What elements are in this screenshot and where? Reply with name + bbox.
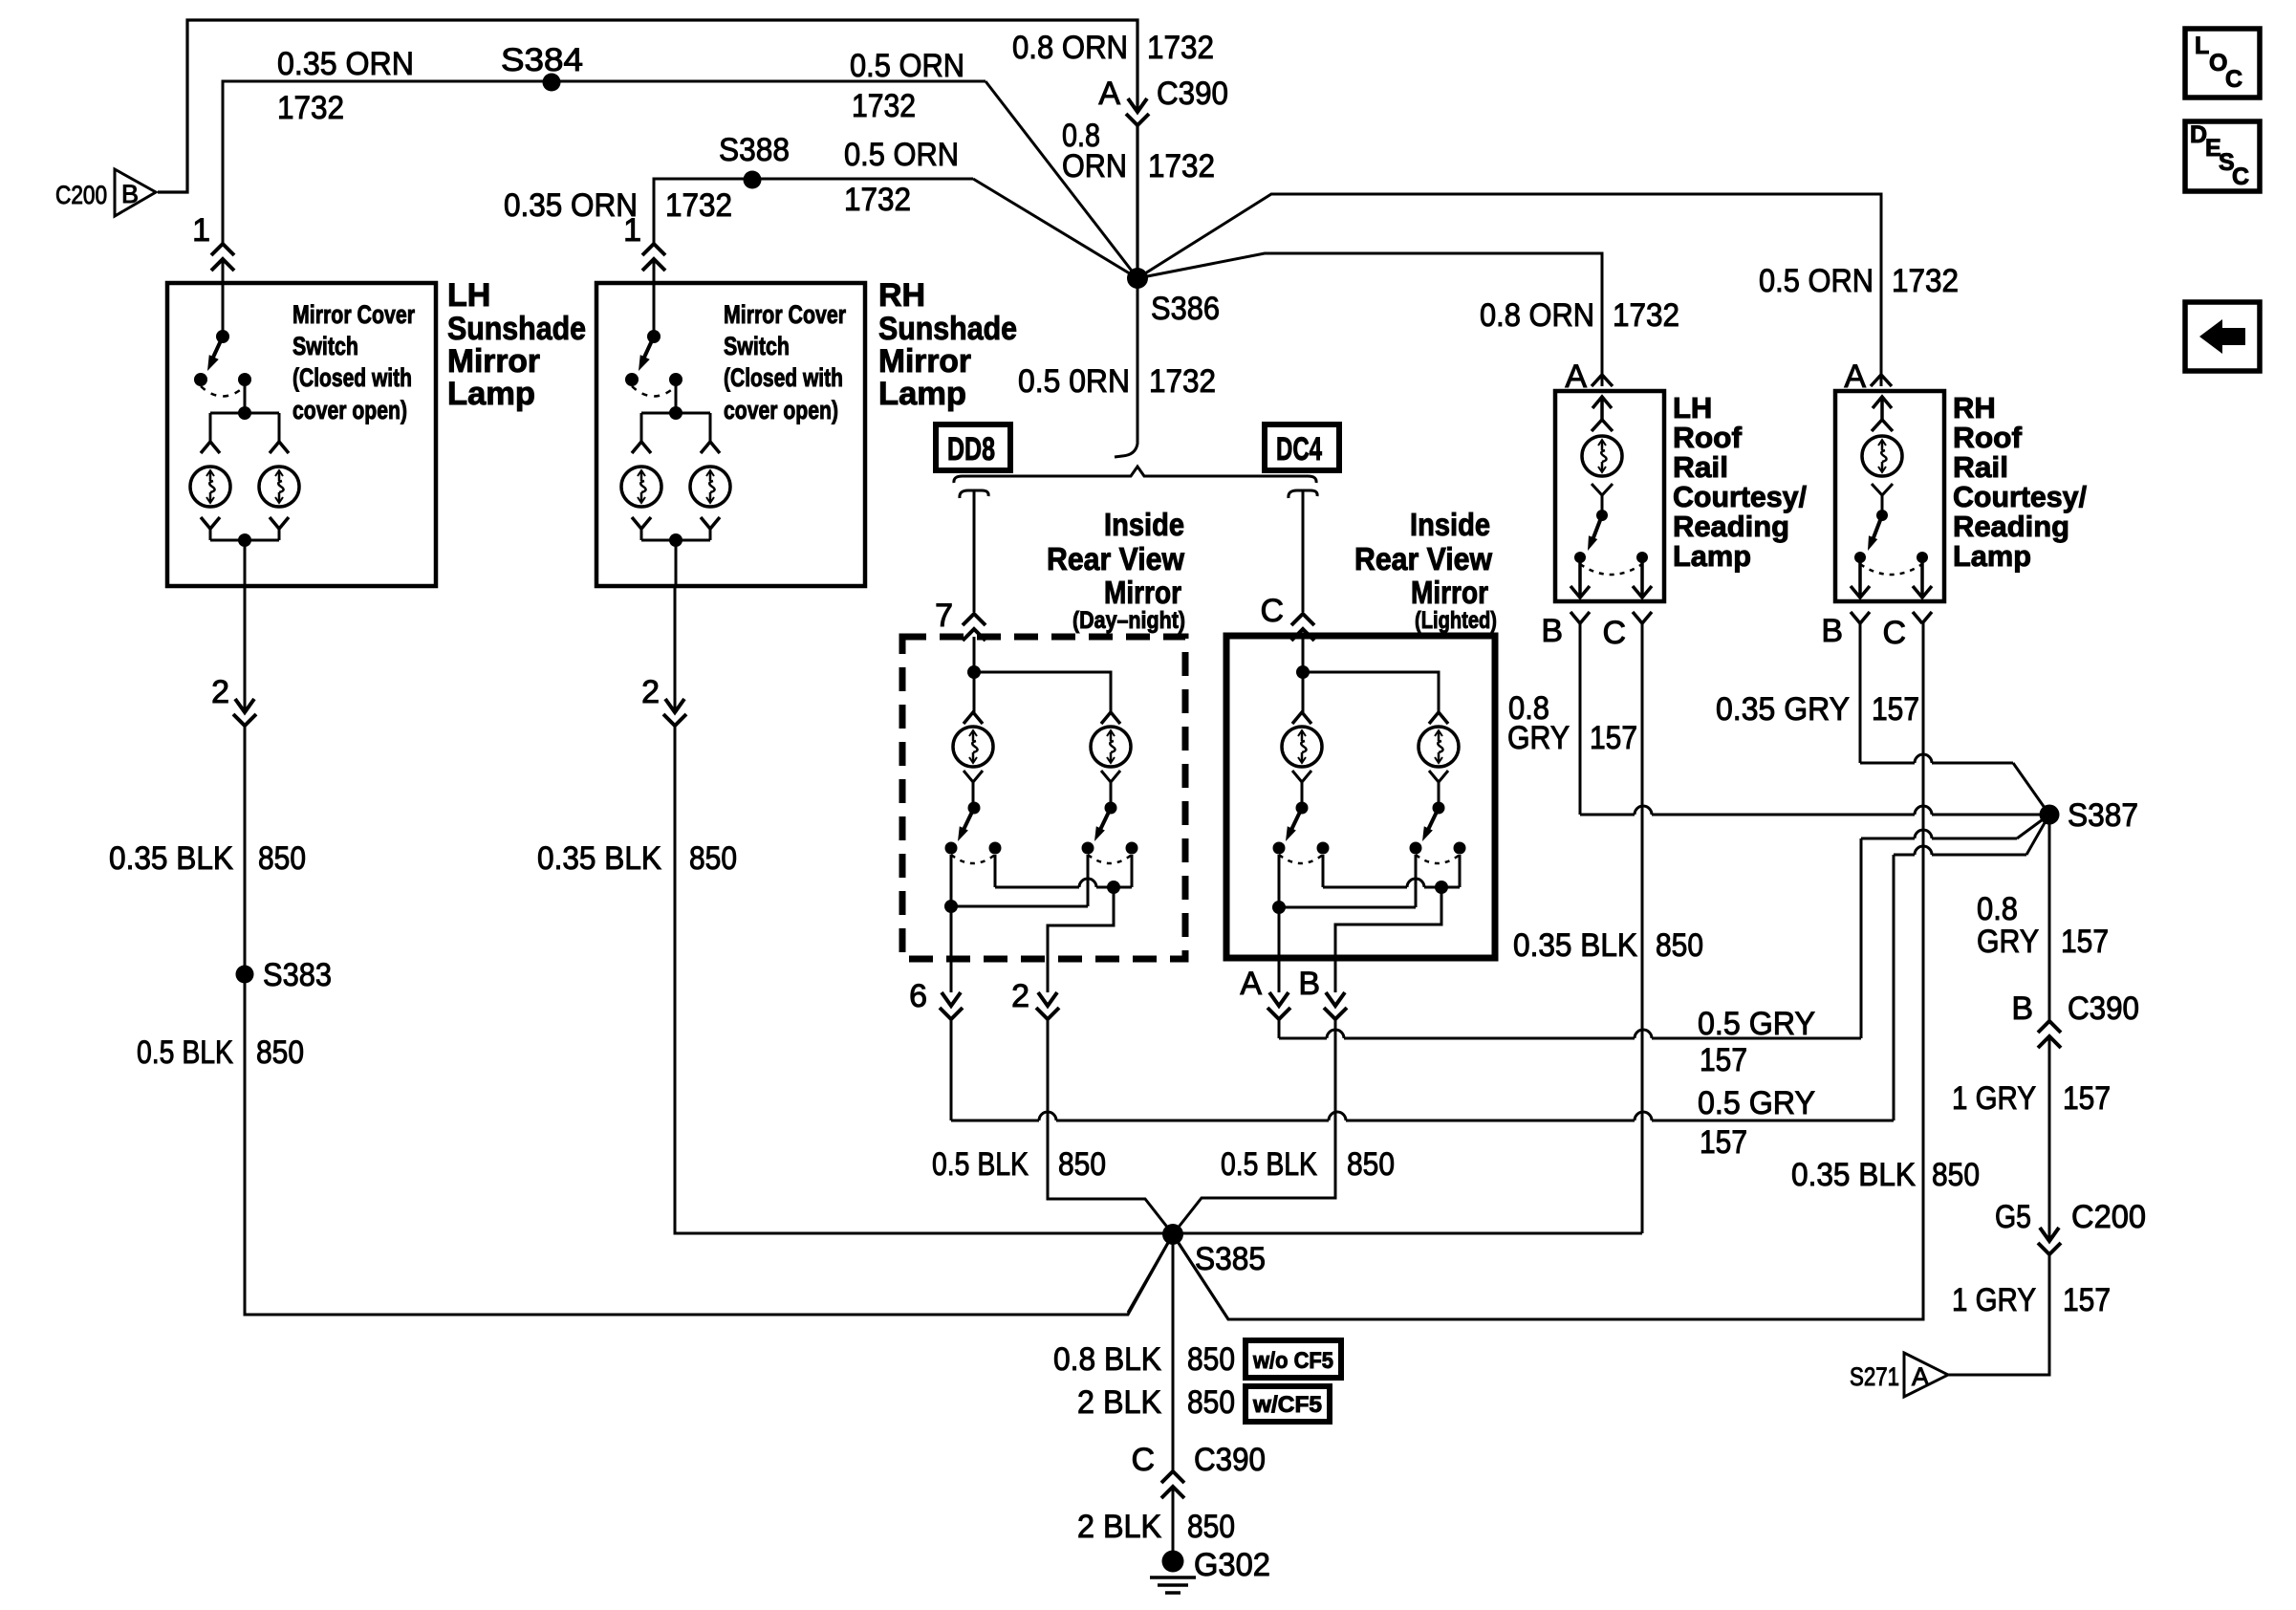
svg-text:850: 850 [256,1034,304,1071]
terminal pin A [1592,375,1613,386]
svg-text:0.35 GRY: 0.35 GRY [1716,691,1850,728]
svg-text:RH: RH [878,277,925,314]
inline connector pin 1 LH [221,245,226,258]
connector C200 B triangle [115,169,156,216]
svg-text:B: B [121,180,139,208]
svg-text:1: 1 [623,212,641,249]
splice S385 [1162,1224,1183,1245]
wire to pin B [1335,887,1441,992]
legend box back-arrow [2185,302,2260,371]
junction [1107,881,1120,894]
box Inside Rear View Mirror Day-night [902,637,1185,959]
svg-text:Rail: Rail [1953,450,2008,484]
wire right contacts join day-night [995,879,1132,887]
svg-text:C: C [2232,163,2249,190]
svg-text:1732: 1732 [1892,263,1959,299]
switch right lighted mirror [1410,802,1466,864]
option box w/CF5 [1245,1386,1330,1422]
svg-text:1732: 1732 [277,90,344,126]
option split brace DD8/DC4 [954,467,1316,483]
svg-text:0.35 BLK: 0.35 BLK [537,840,661,877]
svg-text:0.35 ORN: 0.35 ORN [504,187,638,224]
svg-text:S383: S383 [263,957,332,993]
svg-text:B: B [2011,990,2033,1027]
svg-text:Reading: Reading [1953,510,2069,543]
wire pinC branch to both lamps [1303,636,1439,712]
wire pin A to 0.5 GRY run [1278,1019,1281,1038]
svg-text:Rear View: Rear View [1354,541,1492,577]
wire pin7 branch to both lamps [974,637,1111,712]
wire RH roof pin B 0.35 GRY 157 [1859,623,1862,763]
inline connector C390 pin B [2047,1022,2052,1035]
wire right contacts join lighted [1323,879,1460,887]
svg-text:Mirror: Mirror [447,343,540,380]
svg-text:1: 1 [192,212,210,249]
wire option split to pin 7 [960,490,988,612]
svg-text:C390: C390 [1157,76,1228,112]
junction [1296,665,1310,679]
svg-text:GRY: GRY [1507,720,1570,756]
svg-text:LH: LH [447,277,490,314]
svg-text:C: C [1882,615,1906,651]
box RH Sunshade Mirror Lamp [596,283,865,586]
svg-text:0.35 ORN: 0.35 ORN [277,46,414,82]
svg-text:Roof: Roof [1673,421,1743,454]
svg-text:157: 157 [1872,691,1919,728]
switch right day-night mirror [1082,802,1138,864]
svg-text:0.5 BLK: 0.5 BLK [137,1034,233,1071]
wire LH roof pin B 0.8 GRY 157 [1579,623,1582,815]
svg-text:157: 157 [2063,1080,2111,1117]
wire diagonal into S387 [2017,815,2049,838]
inline connector pin A [1277,1007,1282,1018]
svg-text:Sunshade: Sunshade [447,311,586,347]
wire diagonal S385 to RH roof pin C run [1173,1234,1923,1319]
svg-text:L: L [2195,33,2209,59]
svg-text:157: 157 [1700,1124,1747,1161]
wire 0.35 ORN 1732 from S384 branch down into LH switch [223,81,986,337]
svg-text:S384: S384 [501,42,583,78]
wire 0.5 GRY run to S387 [1861,830,2017,838]
svg-text:0.8 BLK: 0.8 BLK [1053,1341,1161,1378]
svg-text:GRY: GRY [1977,924,2039,960]
svg-text:(Lighted): (Lighted) [1415,607,1497,634]
svg-text:C390: C390 [1194,1442,1266,1478]
svg-text:Courtesy/: Courtesy/ [1953,480,2087,513]
switch left lighted mirror [1273,802,1330,864]
option box w/o CF5 [1245,1340,1341,1378]
svg-text:w/o CF5: w/o CF5 [1252,1348,1333,1374]
svg-text:C: C [1602,615,1626,651]
svg-text:C390: C390 [2068,990,2139,1027]
svg-text:A: A [1912,1362,1929,1391]
svg-text:157: 157 [1590,720,1637,756]
box Inside Rear View Mirror Lighted [1226,636,1495,958]
svg-text:Inside: Inside [1410,507,1490,542]
svg-text:2 BLK: 2 BLK [1077,1509,1161,1545]
wire diagonal into S387 [2026,815,2049,855]
svg-text:1 GRY: 1 GRY [1952,1080,2036,1117]
inline connector pin 1 RH [652,245,657,258]
svg-text:850: 850 [689,840,737,877]
inline connector C200 pin G5 [2047,1242,2052,1253]
svg-text:0.5 BLK: 0.5 BLK [932,1146,1029,1183]
svg-text:(Closed with: (Closed with [724,363,843,392]
svg-text:157: 157 [2061,924,2109,960]
legend box DESC [2185,121,2260,191]
lamp left day-night mirror [964,712,983,724]
svg-text:Mirror Cover: Mirror Cover [724,300,846,329]
svg-text:0.5 GRY: 0.5 GRY [1698,1006,1815,1042]
inline connector pin B [1333,1007,1338,1018]
svg-text:A: A [1098,76,1120,112]
wire to pin 6 [950,906,953,992]
box LH Roof Rail Courtesy/Reading Lamp [1555,391,1664,601]
wire pin 6 down [950,1019,953,1120]
svg-text:Inside: Inside [1104,507,1184,542]
svg-text:7: 7 [935,598,953,634]
wire pin6 0.5 GRY 157 to S387 riser [951,1112,1894,1120]
splice S384 [543,74,561,92]
svg-text:S385: S385 [1195,1241,1266,1277]
svg-text:A: A [1565,359,1587,395]
splice S386 [1127,268,1148,289]
svg-text:Switch: Switch [292,332,358,360]
svg-text:157: 157 [1700,1042,1747,1078]
riser 0.5 GRY to S387 [1860,838,1863,1038]
svg-text:6: 6 [909,978,927,1014]
splice S387 [2040,805,2060,825]
wire to pin A [1278,907,1281,992]
svg-text:w/CF5: w/CF5 [1252,1392,1322,1418]
svg-text:2: 2 [1011,978,1029,1014]
inline connector C390 pin C [1171,1472,1176,1486]
svg-text:1732: 1732 [1149,363,1216,400]
svg-text:S386: S386 [1151,291,1220,327]
svg-text:157: 157 [2063,1282,2111,1318]
svg-text:0.5 ORN: 0.5 ORN [1759,263,1874,299]
wire RH switch pin2 0.35 BLK 850 to S385 [675,586,1642,1233]
svg-text:S387: S387 [2068,797,2138,834]
svg-text:B: B [1541,613,1563,649]
svg-text:0.8 ORN: 0.8 ORN [1480,297,1594,334]
svg-text:A: A [1844,359,1866,395]
svg-text:0.8 ORN: 0.8 ORN [1012,30,1128,66]
junction [944,900,958,913]
wire RH roof pin C 0.35 BLK 850 to S385 [1173,623,1923,1319]
inline connector pin 2 day-night [1046,1007,1051,1018]
svg-text:850: 850 [1187,1384,1235,1421]
wire pin2 0.5 BLK 850 to S385 [1048,1019,1173,1234]
svg-text:850: 850 [1656,927,1703,964]
svg-text:0.5 GRY: 0.5 GRY [1698,1085,1815,1121]
svg-text:A: A [1240,966,1262,1002]
svg-text:1 GRY: 1 GRY [1952,1282,2036,1318]
svg-text:Roof: Roof [1953,421,2023,454]
lamp left lighted mirror [1292,712,1311,724]
svg-text:C: C [2225,66,2242,93]
wire C200-B feed to top bus and down to S386 [158,20,1137,274]
wire pinB 0.5 BLK 850 to S385 [1173,1019,1335,1234]
wire left contacts join lighted [1279,855,1416,907]
svg-text:850: 850 [1058,1146,1106,1183]
lamp right lighted mirror [1429,712,1448,724]
svg-text:DD8: DD8 [947,431,995,468]
svg-text:B: B [1821,613,1843,649]
svg-text:Lamp: Lamp [1673,539,1751,573]
svg-text:0.5 BLK: 0.5 BLK [1221,1146,1317,1183]
svg-text:0.35 BLK: 0.35 BLK [1791,1157,1916,1193]
switch + lamps RH mirror cover switch [625,330,720,453]
wire pinA 0.5 GRY 157 to S387 riser [1279,1030,1861,1038]
svg-text:Mirror: Mirror [1411,575,1488,610]
svg-text:2 BLK: 2 BLK [1077,1384,1161,1421]
svg-text:C200: C200 [55,181,107,209]
svg-text:LH: LH [1673,391,1712,424]
wire S386 down to option split [1115,278,1137,457]
svg-text:Mirror Cover: Mirror Cover [292,300,415,329]
icon left arrow [2199,319,2245,354]
svg-text:0.35 BLK: 0.35 BLK [1513,927,1637,964]
svg-text:0.5 ORN: 0.5 ORN [844,137,959,173]
ground G302 [1162,1551,1184,1573]
svg-text:Courtesy/: Courtesy/ [1673,480,1807,513]
svg-text:Rail: Rail [1673,450,1728,484]
svg-text:B: B [1298,966,1320,1002]
wire LH roof pin C 0.35 BLK 850 to S385 [1641,623,1644,1233]
svg-text:0.8: 0.8 [1977,891,2018,927]
svg-text:2: 2 [641,674,660,710]
svg-text:850: 850 [1187,1341,1235,1378]
wire diagonal S384 branch to S386 [986,81,1137,278]
svg-text:S388: S388 [719,132,790,168]
svg-text:G302: G302 [1194,1547,1270,1583]
inline connector pin 7 [972,615,977,628]
splice S388 [744,171,762,189]
switch + lamps LH mirror cover switch [194,330,289,453]
svg-text:1732: 1732 [1613,297,1679,334]
wire S386 to LH roof rail lamp pin A [1137,253,1602,386]
svg-text:2: 2 [211,674,229,710]
wire option split to pin C [1289,490,1317,612]
svg-text:Mirror: Mirror [1104,575,1181,610]
svg-text:(Closed with: (Closed with [292,363,412,392]
inline connector C390 pin A [1136,113,1140,124]
switch left day-night mirror [945,802,1002,864]
splice S383 [236,966,254,984]
svg-text:1732: 1732 [1148,148,1215,185]
option box DD8 [936,424,1010,470]
svg-text:C200: C200 [2071,1199,2146,1235]
wire left contacts join day-night [951,855,1088,906]
wire diagonal into S387 [2013,763,2049,815]
svg-text:Rear View: Rear View [1047,541,1184,577]
svg-text:1732: 1732 [852,88,916,124]
wire 0.35 ORN 1732 from S388 branch down into RH switch [654,179,973,337]
wire S385 down to ground G302 [1172,1234,1175,1561]
inline connector pin C [1301,615,1306,628]
wire to pin 2 [1048,887,1114,992]
wire diagonal into S385 from left run [1128,1234,1173,1313]
wire 0.35 GRY to S387 [1860,754,2013,763]
svg-text:Lamp: Lamp [878,376,966,412]
terminal pin A [1871,375,1892,386]
svg-text:1732: 1732 [1147,30,1214,66]
box RH Roof Rail Courtesy/Reading Lamp [1835,391,1944,601]
lamp right day-night mirror [1101,712,1120,724]
connector S271 A triangle [1904,1353,1948,1397]
svg-text:RH: RH [1953,391,1996,424]
junction [967,665,981,679]
svg-text:Reading: Reading [1673,510,1789,543]
svg-text:Switch: Switch [724,332,790,360]
option box DC4 [1265,424,1339,470]
riser 0.5 GRY to S387 [1893,855,1895,1120]
svg-text:Lamp: Lamp [1953,539,2031,573]
inline connector pin 2 LH [243,713,248,725]
wire 0.5 GRY run to S387 [1894,846,2026,855]
svg-text:cover open): cover open) [292,396,407,424]
wire diagonal S388 branch to S386 [973,179,1137,278]
svg-text:1732: 1732 [844,182,911,218]
svg-text:G5: G5 [1995,1199,2031,1235]
box LH Sunshade Mirror Lamp [167,283,436,586]
svg-text:ORN: ORN [1062,148,1127,185]
svg-text:0.35 BLK: 0.35 BLK [109,840,233,877]
svg-text:(Day–night): (Day–night) [1072,607,1185,634]
svg-text:Lamp: Lamp [447,376,535,412]
wire S386 to RH roof rail lamp pin A [1137,194,1881,386]
svg-text:850: 850 [1347,1146,1395,1183]
svg-text:Mirror: Mirror [878,343,971,380]
legend box LOC [2185,29,2260,98]
svg-text:Sunshade: Sunshade [878,311,1017,347]
inline connector pin 2 RH [673,713,678,725]
svg-text:1732: 1732 [665,187,732,224]
svg-text:DC4: DC4 [1276,431,1322,468]
svg-text:C: C [1260,593,1284,629]
svg-text:C: C [1131,1442,1155,1478]
svg-text:850: 850 [1932,1157,1980,1193]
wire S387 down 1 GRY 157 to S271 [1948,815,2049,1375]
junction [1272,901,1286,914]
svg-text:0.5 ORN: 0.5 ORN [850,48,964,84]
svg-text:0.5 0RN: 0.5 0RN [1018,363,1130,400]
wire LH switch pin2 0.35 BLK 850 to S385 [245,586,1173,1315]
inline connector pin 6 [949,1007,954,1018]
svg-text:S271: S271 [1850,1362,1899,1391]
svg-text:cover open): cover open) [724,396,838,424]
wire 0.8 GRY 157 to S387 [1580,806,2049,815]
junction [1435,881,1448,894]
svg-text:850: 850 [1187,1509,1235,1545]
svg-text:850: 850 [258,840,306,877]
